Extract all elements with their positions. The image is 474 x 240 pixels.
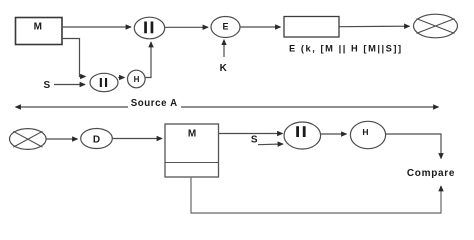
svg-text:M: M (188, 128, 196, 139)
svg-text:S: S (43, 80, 50, 91)
svg-text:E: E (222, 21, 228, 31)
svg-text:H: H (362, 127, 368, 137)
svg-text:Source A: Source A (131, 98, 178, 109)
svg-text:E (k, [M || H [M||S]]: E (k, [M || H [M||S]] (289, 43, 403, 53)
svg-text:K: K (220, 63, 228, 74)
svg-text:H: H (134, 75, 140, 84)
svg-text:M: M (34, 22, 42, 33)
svg-text:D: D (93, 135, 100, 146)
svg-text:Compare: Compare (407, 168, 455, 179)
svg-text:S: S (251, 135, 258, 146)
